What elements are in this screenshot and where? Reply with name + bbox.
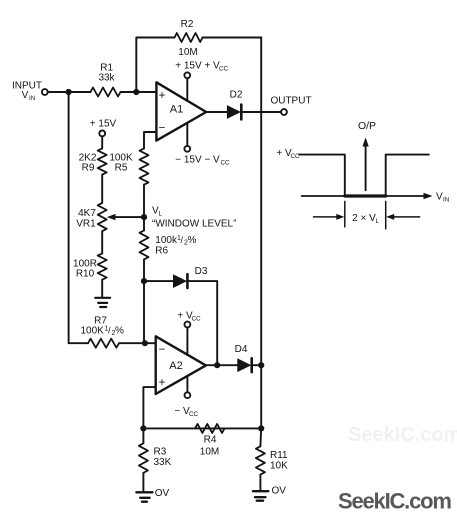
svg-text:R9: R9 [82,163,95,174]
svg-text:R6: R6 [155,246,168,257]
svg-text:L: L [376,218,380,225]
resistor R11 [259,428,262,446]
wire D2 to output terminal [241,111,281,113]
node bottom right [258,425,264,431]
ground under R11 [259,475,261,492]
resistor R6 [140,230,149,259]
svg-text:V: V [22,90,29,101]
svg-text:CC: CC [219,66,229,73]
svg-text:+: + [159,90,166,102]
svg-text:100k: 100k [155,235,178,246]
diode D2 [227,105,241,119]
svg-text:+ 15V: + 15V [90,119,117,130]
svg-text:D4: D4 [235,344,248,355]
svg-text:−: − [159,344,166,356]
node A2 output junction [214,362,220,368]
dimension tick right [385,201,387,228]
svg-text:%: % [115,326,124,337]
resistor R7 [88,339,119,348]
wire bottom row [143,427,261,429]
wire VR1 to R10 [101,231,103,253]
input terminal [42,89,48,95]
resistor R10 [98,253,107,279]
svg-text:+ 15V + V: + 15V + V [175,61,220,72]
svg-text:33K: 33K [154,457,172,468]
svg-text:33k: 33k [98,73,115,84]
svg-text:OV: OV [155,488,170,499]
svg-text:CC: CC [192,316,202,323]
graph Vin axis [302,195,425,197]
wire R5 to R6 [143,185,145,231]
svg-text:D2: D2 [230,90,243,101]
svg-text:“WINDOW LEVEL”: “WINDOW LEVEL” [152,219,236,230]
wire A2 + input [143,387,155,428]
op-amp A2 [156,336,206,394]
output terminal [281,109,287,115]
op-amp A1 [156,82,206,140]
node R1 R2 junction [133,89,139,95]
resistor R4 [195,424,225,433]
A2 -Vcc supply [185,392,191,398]
wire A1 - input [144,132,156,148]
VR1 wiper arrow [115,216,145,218]
svg-text:OUTPUT: OUTPUT [270,96,311,107]
node window level junction [141,214,147,220]
svg-text:OV: OV [271,486,286,497]
wire R2 to right rail [203,37,262,39]
wire D3 cathode to A2 output [187,281,217,365]
svg-text:L: L [159,211,163,218]
svg-text:SeekIC.com: SeekIC.com [348,424,457,446]
diode D3 [173,274,187,288]
ground under R3 [142,473,144,492]
wire input to R1 [48,91,91,93]
resistor R2 [175,33,203,42]
diode D4 [237,358,251,372]
svg-text:IN: IN [443,197,450,204]
node D3 junction [141,278,147,284]
ground under R10 [101,280,103,298]
svg-text:D3: D3 [195,266,208,277]
svg-text:IN: IN [29,95,36,102]
node D4 junction [258,362,264,368]
potentiometer VR1 [98,203,107,231]
dimension arrow right [393,216,420,218]
svg-text:100K: 100K [81,326,105,337]
node input junction [66,89,72,95]
svg-text:R2: R2 [181,19,194,30]
svg-text:− V: − V [174,406,190,417]
node A2 - junction [142,340,148,346]
svg-text:CC: CC [189,411,199,418]
svg-text:− 15V − V: − 15V − V [175,155,220,166]
graph O/P axis arrow [365,146,367,191]
resistor R1 [91,88,121,97]
svg-text:VR1: VR1 [76,218,96,229]
wire D3 anode [144,280,173,282]
graph waveform [299,155,345,196]
svg-text:O/P: O/P [358,120,376,132]
svg-text:A1: A1 [170,104,183,116]
svg-text:%: % [188,235,197,246]
svg-text:A2: A2 [169,360,182,372]
dimension tick left [344,201,346,227]
resistor R5 [140,148,149,184]
svg-text:−: − [159,123,166,135]
wire R1 to A1 + input [121,91,157,93]
svg-text:2 × V: 2 × V [352,213,376,224]
node bottom left [140,425,146,431]
svg-text:R4: R4 [204,435,217,446]
wire left rail down to R7 [69,92,88,343]
wire R6 to D3 node [143,260,145,282]
svg-text:10M: 10M [200,447,219,458]
svg-text:R10: R10 [76,269,95,280]
wire R7 to A2 - input [119,342,156,344]
svg-text:+: + [159,377,166,389]
A1 -15V supply [184,146,190,152]
wire R9 to VR1 [101,175,103,203]
svg-text:10M: 10M [178,47,197,58]
wire D4 to right rail [252,364,262,366]
wire A1 output to D2 [206,111,227,113]
svg-text:R5: R5 [115,163,128,174]
svg-text:10K: 10K [270,460,288,471]
resistor R3 [142,428,144,443]
resistor R9 [98,148,107,174]
svg-text:CC: CC [221,160,231,167]
wire feedback up to R2 [136,38,174,93]
svg-text:SeekIC.com: SeekIC.com [338,489,451,514]
wire mid rail to A2 - input [143,281,145,343]
wire A2 output to D4 [206,364,238,366]
dimension arrow left [314,216,338,218]
svg-text:V: V [436,192,443,203]
wire right rail [260,38,262,429]
